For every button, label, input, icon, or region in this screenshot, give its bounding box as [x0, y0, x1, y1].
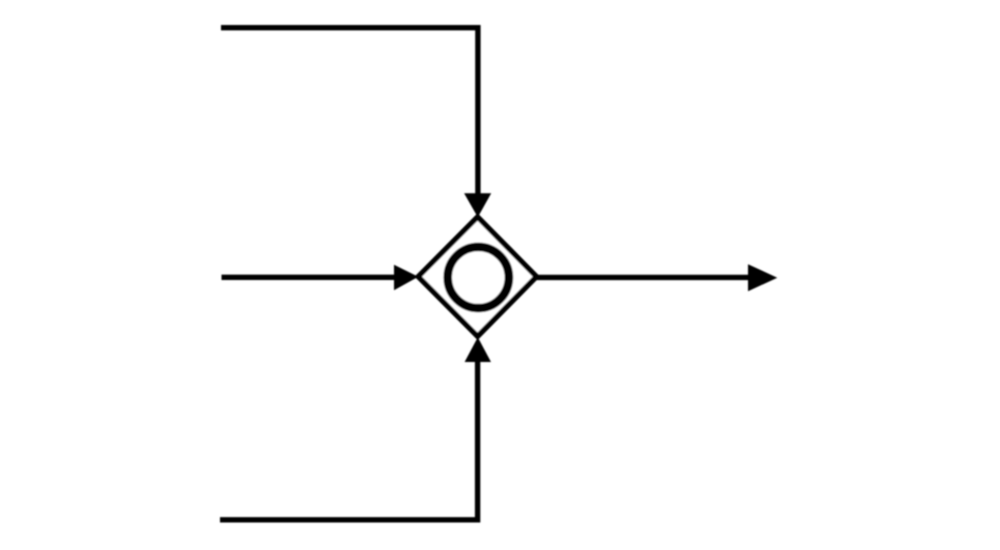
arrowhead: outgoing flow — [748, 264, 777, 291]
wire: middle incoming flow horizontal segment — [222, 275, 399, 280]
wire: top incoming flow (horizontal then vertical down) — [221, 28, 478, 198]
arrowhead: top flow into gateway — [464, 193, 491, 217]
gateway inner circle — [448, 247, 509, 308]
arrowhead: middle flow into gateway — [394, 265, 418, 291]
gateway diamond (inclusive gateway) — [418, 217, 536, 336]
arrowhead: bottom flow into gateway — [465, 337, 491, 362]
wire: outgoing flow horizontal segment — [536, 275, 752, 280]
wire: bottom incoming flow (horizontal then vertical up) — [220, 357, 478, 520]
